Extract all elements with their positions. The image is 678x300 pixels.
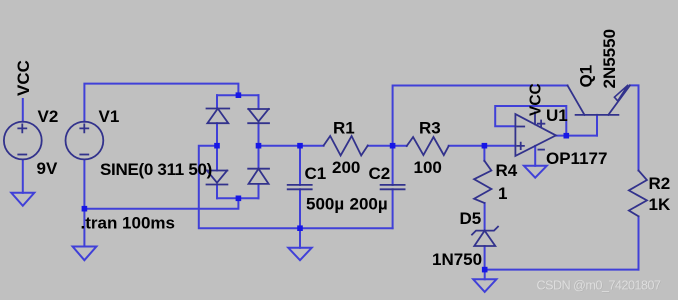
diode D lower-left (points down) <box>207 170 228 172</box>
node bridge bottom <box>236 196 242 202</box>
svg-text:200µ: 200µ <box>350 195 388 214</box>
resistor R2 zigzag <box>629 171 647 217</box>
svg-text:U1: U1 <box>546 106 568 125</box>
wire bridge left column upper lead <box>216 95 218 108</box>
node C1 bottom <box>297 225 303 231</box>
wire bridge right column middle lead <box>258 123 260 169</box>
node opamp output <box>564 133 570 139</box>
node R4 top <box>482 143 488 149</box>
op-amp minus input mark <box>517 126 524 128</box>
svg-text:R2: R2 <box>649 174 671 193</box>
wire bridge bottom to V1 bottom <box>84 198 238 208</box>
svg-text:200: 200 <box>332 158 360 177</box>
svg-text:Q1: Q1 <box>577 65 596 88</box>
ground V2 <box>11 193 34 206</box>
svg-text:OP1177: OP1177 <box>546 149 607 168</box>
svg-text:C1: C1 <box>305 164 327 183</box>
ground V1 <box>73 247 97 261</box>
V2 plus mark <box>18 124 26 132</box>
svg-text:9V: 9V <box>37 159 58 178</box>
wire C1 bottom lead <box>299 189 301 228</box>
wire bridge top rail <box>217 94 259 96</box>
transistor Q1 collector diagonal <box>568 86 585 115</box>
V1 plus mark <box>80 124 88 132</box>
svg-text:D5: D5 <box>460 209 482 228</box>
V1 minus mark <box>80 154 88 156</box>
resistor R4 zigzag <box>474 161 491 203</box>
wire opamp feedback loop <box>495 106 566 136</box>
svg-text:VCC: VCC <box>14 60 33 96</box>
svg-text:V2: V2 <box>38 107 59 126</box>
node C2 top / R1-R3 <box>390 143 396 149</box>
wire DC plus rail bridge to R1 <box>259 145 324 147</box>
diode D upper-right (points down) <box>248 108 269 110</box>
wire C2 bottom lead <box>392 189 394 228</box>
wire C1 top lead <box>299 146 301 185</box>
node D5 bottom <box>482 267 488 273</box>
wire DC plus rail R3 to opamp plus input <box>449 145 516 147</box>
op-amp U1 triangle <box>515 114 556 156</box>
wire bridge left column middle lead <box>216 123 218 170</box>
capacitor C1 plates <box>288 185 312 189</box>
transistor Q1 base bar <box>576 114 619 116</box>
node bridge mid-left <box>214 143 220 149</box>
wire V2 ground stub <box>22 160 24 193</box>
svg-text:R3: R3 <box>419 119 441 138</box>
svg-text:V1: V1 <box>99 107 120 126</box>
wire C1 ground stub <box>299 228 301 248</box>
wire V1 ground stub <box>83 209 85 247</box>
op-amp plus input mark <box>518 143 524 149</box>
wire bridge left column lower lead <box>216 185 218 199</box>
ground D5 <box>473 279 496 292</box>
wire D5 ground stub <box>484 270 486 280</box>
wire D5 bottom lead <box>484 246 486 270</box>
wire V2 top stub to VCC flag <box>22 99 24 122</box>
wire V1 top to bridge top <box>84 84 238 122</box>
wire R2 bottom lead <box>638 217 640 270</box>
wire DC plus rail R1 to R3 <box>368 145 407 147</box>
transistor Q1 emitter diagonal <box>608 85 630 115</box>
svg-text:.tran 100ms: .tran 100ms <box>81 214 176 233</box>
wire bottom rail D5 to R2 <box>485 269 639 271</box>
wire collector node up and across to Q1 <box>393 86 568 146</box>
diode D lower-right (points up) <box>248 168 269 170</box>
svg-text:100: 100 <box>414 158 442 177</box>
node bridge mid-right <box>256 143 262 149</box>
op-amp VCC supply stub <box>534 112 536 124</box>
zener diode D5 bar <box>472 227 498 235</box>
svg-text:R1: R1 <box>333 119 355 138</box>
node C1 top <box>297 143 303 149</box>
svg-text:1K: 1K <box>649 195 671 214</box>
op-amp plus supply mark <box>538 121 545 127</box>
wire R4 top lead <box>483 146 485 161</box>
wire V1 bottom lead <box>83 160 85 209</box>
voltage source V2 circle <box>4 122 42 160</box>
V2 minus mark <box>18 154 26 156</box>
resistor R3 zigzag <box>407 137 449 155</box>
wire opamp output to Q1 base <box>556 135 597 137</box>
wire DC minus: mid-left junction left, down, bottom rail to C2 <box>199 146 393 229</box>
svg-text:R4: R4 <box>496 161 518 180</box>
svg-text:VCC: VCC <box>528 83 545 116</box>
wire R2 top lead to Q1 emitter <box>630 85 639 170</box>
wire opamp minus supply stub <box>534 146 536 166</box>
wire R4 bottom to D5 <box>484 203 486 231</box>
svg-text:1: 1 <box>498 184 507 203</box>
wire Q1 base lead down <box>596 115 598 136</box>
zener diode D5 triangle (points up) <box>474 231 495 246</box>
ground opamp <box>524 166 547 178</box>
svg-text:SINE(0 311 50): SINE(0 311 50) <box>100 160 212 179</box>
svg-text:500µ: 500µ <box>306 195 344 214</box>
svg-text:2N5550: 2N5550 <box>600 29 619 89</box>
wire C2 top lead <box>392 146 394 185</box>
svg-text:C2: C2 <box>369 164 391 183</box>
capacitor C2 plates <box>381 185 405 189</box>
svg-text:1N750: 1N750 <box>432 250 482 269</box>
diode D upper-left (points up) <box>207 108 230 110</box>
wire bridge right column lower lead <box>258 184 260 198</box>
wire bridge bottom rail <box>217 197 259 199</box>
node V1 bottom <box>82 206 88 212</box>
transistor Q1 emitter arrow <box>614 85 628 101</box>
voltage source V1 circle <box>66 122 104 160</box>
node bridge top <box>236 92 242 98</box>
svg-text:CSDN @m0_74201807: CSDN @m0_74201807 <box>537 279 661 293</box>
op-amp minus supply mark <box>538 149 544 151</box>
wire bridge right column upper lead <box>258 95 260 109</box>
ground C1 <box>288 248 311 260</box>
resistor R1 zigzag <box>324 136 368 156</box>
